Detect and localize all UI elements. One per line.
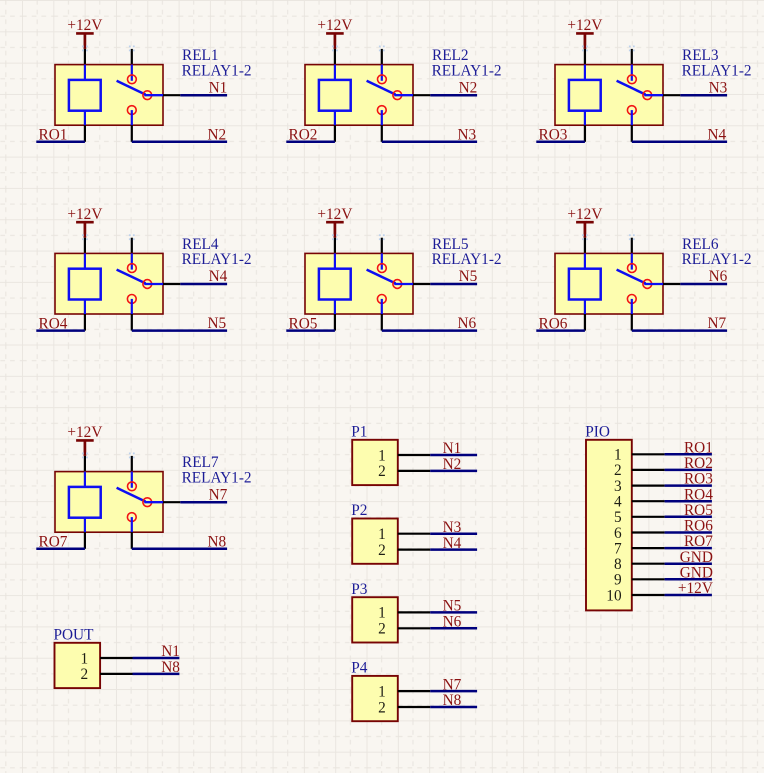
coil of REL4 xyxy=(69,253,101,314)
pin 6 of PIO xyxy=(632,531,665,533)
pole stub to box edge xyxy=(144,283,163,285)
wire net RO1 xyxy=(36,141,85,144)
svg-text:N2: N2 xyxy=(459,79,478,96)
pin (pole) xyxy=(663,283,680,285)
svg-text:2: 2 xyxy=(378,699,386,716)
switch pole circle xyxy=(143,498,152,507)
svg-text:RELAY1-2: RELAY1-2 xyxy=(182,62,252,79)
svg-text:N5: N5 xyxy=(207,315,226,332)
pin 1 of POUT xyxy=(100,657,132,659)
svg-text:1: 1 xyxy=(378,683,386,700)
pin 3 (switch common, free end) xyxy=(131,238,133,254)
svg-text:RELAY1-2: RELAY1-2 xyxy=(432,62,502,79)
wire net GND xyxy=(665,562,712,565)
hotspot marker at coil pin end xyxy=(332,234,338,240)
svg-text:3: 3 xyxy=(614,478,622,495)
pin 3 (switch common, free end) xyxy=(381,238,383,254)
wire net RO1 xyxy=(665,453,712,456)
svg-text:2: 2 xyxy=(378,542,386,559)
pin 2 of PIO xyxy=(632,469,665,471)
wire net N7 xyxy=(430,690,477,693)
pin 3 (switch common, free end) xyxy=(381,49,383,65)
switch pole circle xyxy=(643,280,652,289)
svg-text:+12V: +12V xyxy=(67,424,102,441)
wire net RO2 xyxy=(665,469,712,472)
bottom contact stub xyxy=(131,110,133,125)
svg-text:6: 6 xyxy=(614,525,622,542)
power port +12V (REL5) xyxy=(317,206,352,238)
switch top contact circle xyxy=(127,75,136,84)
svg-text:N4: N4 xyxy=(707,126,726,143)
svg-text:7: 7 xyxy=(614,540,622,557)
switch bottom contact circle xyxy=(127,295,136,304)
switch pole circle xyxy=(393,280,402,289)
svg-text:P4: P4 xyxy=(351,660,368,677)
pin (pole) xyxy=(163,94,180,96)
switch bottom contact circle xyxy=(627,106,636,115)
connector body P1 xyxy=(352,440,398,485)
power port +12V (REL4) xyxy=(67,206,102,238)
wire net N4 xyxy=(180,283,227,286)
switch top contact circle xyxy=(127,482,136,491)
switch bottom contact circle xyxy=(377,106,386,115)
svg-text:N3: N3 xyxy=(443,519,462,536)
wire from +12V to coil pin xyxy=(334,49,336,65)
pin 1 of PIO xyxy=(632,453,665,455)
relay body REL1 xyxy=(55,65,163,126)
wire net N2 xyxy=(430,470,477,473)
relay REL6 xyxy=(536,206,751,333)
svg-text:N1: N1 xyxy=(443,440,462,457)
bottom contact stub xyxy=(381,110,383,125)
relay body REL3 xyxy=(555,65,663,126)
wire net N6 xyxy=(382,329,477,332)
svg-text:RO4: RO4 xyxy=(39,316,68,333)
pin 2 of P3 xyxy=(398,627,430,629)
svg-text:4: 4 xyxy=(614,494,622,511)
pin 10 of PIO xyxy=(632,594,665,596)
switch top contact circle xyxy=(628,264,637,273)
pin (coil bottom) xyxy=(584,125,586,142)
bottom contact stub xyxy=(131,299,133,314)
wire net N3 xyxy=(680,94,727,97)
power port +12V (REL6) xyxy=(567,206,602,238)
relay REL4 xyxy=(36,206,251,333)
svg-text:N2: N2 xyxy=(207,126,226,143)
svg-text:RO5: RO5 xyxy=(289,316,318,333)
svg-text:+12V: +12V xyxy=(67,17,102,34)
power port +12V (REL7) xyxy=(67,424,102,456)
svg-text:RELAY1-2: RELAY1-2 xyxy=(682,62,752,79)
switch contact stub xyxy=(131,253,133,269)
connector P1 xyxy=(351,424,477,486)
pin 3 (switch common, free end) xyxy=(631,49,633,65)
connector body POUT xyxy=(55,643,101,688)
hotspot marker at coil pin end xyxy=(82,453,88,459)
connector PIO xyxy=(585,423,713,610)
wire net RO6 xyxy=(536,329,585,332)
svg-text:RO6: RO6 xyxy=(539,316,568,333)
switch top contact circle xyxy=(127,264,136,273)
connector body P3 xyxy=(352,597,398,642)
switch contact stub xyxy=(381,65,383,81)
svg-text:8: 8 xyxy=(614,556,622,573)
pole stub to box edge xyxy=(644,283,663,285)
pin (coil bottom) xyxy=(334,125,336,142)
pin 1 of P2 xyxy=(398,533,430,535)
wire net RO4 xyxy=(36,329,85,332)
bottom contact stub xyxy=(131,517,133,532)
wire net N1 xyxy=(133,657,180,660)
pin 2 of P2 xyxy=(398,548,430,550)
switch bottom contact circle xyxy=(127,513,136,522)
wire net N5 xyxy=(430,283,477,286)
switch pole circle xyxy=(643,91,652,100)
hotspot marker at switch pin end xyxy=(129,234,135,240)
switch pole circle xyxy=(143,91,152,100)
pin (bottom contact) xyxy=(131,532,133,549)
pin 9 of PIO xyxy=(632,578,665,580)
hotspot marker at switch pin end xyxy=(629,234,635,240)
wire net N6 xyxy=(680,283,727,286)
switch top contact circle xyxy=(378,75,387,84)
hotspot marker at coil pin end xyxy=(332,46,338,52)
svg-text:P2: P2 xyxy=(351,502,367,519)
wire net RO6 xyxy=(665,531,712,534)
pin 5 of PIO xyxy=(632,516,665,518)
pin (bottom contact) xyxy=(631,125,633,142)
wire net N2 xyxy=(430,94,477,97)
wire net N7 xyxy=(632,329,727,332)
pin (coil bottom) xyxy=(84,314,86,331)
pin 2 of P1 xyxy=(398,470,430,472)
wire from +12V to coil pin xyxy=(334,238,336,254)
wire net RO5 xyxy=(286,329,335,332)
pin 2 of POUT xyxy=(100,673,132,675)
coil of REL6 xyxy=(569,253,601,314)
svg-text:N3: N3 xyxy=(709,79,728,96)
pin 1 of P4 xyxy=(398,690,430,692)
pin 1 of P1 xyxy=(398,454,430,456)
coil of REL2 xyxy=(319,65,351,126)
pin (coil bottom) xyxy=(334,314,336,331)
switch bottom contact circle xyxy=(627,295,636,304)
coil of REL7 xyxy=(69,472,101,533)
switch contact stub xyxy=(131,65,133,81)
wire net N5 xyxy=(132,329,227,332)
coil of REL1 xyxy=(69,65,101,126)
pin (bottom contact) xyxy=(131,125,133,142)
switch bottom contact circle xyxy=(377,295,386,304)
svg-text:N4: N4 xyxy=(443,535,462,552)
relay body REL5 xyxy=(305,253,413,314)
svg-text:N2: N2 xyxy=(443,456,462,473)
svg-text:RO7: RO7 xyxy=(39,534,68,551)
switch contact stub xyxy=(381,253,383,269)
switch contact stub xyxy=(131,472,133,488)
wire net N1 xyxy=(430,454,477,457)
relay REL1 xyxy=(36,17,251,144)
svg-text:PIO: PIO xyxy=(585,423,610,440)
pin 3 (switch common, free end) xyxy=(631,238,633,254)
svg-text:1: 1 xyxy=(378,526,386,543)
pole stub to box edge xyxy=(394,283,413,285)
wire net RO5 xyxy=(665,516,712,519)
pin 4 of PIO xyxy=(632,500,665,502)
pin (coil bottom) xyxy=(584,314,586,331)
svg-text:N8: N8 xyxy=(161,659,180,676)
svg-text:N5: N5 xyxy=(443,598,462,615)
svg-text:N7: N7 xyxy=(209,486,228,503)
svg-text:N1: N1 xyxy=(209,79,228,96)
svg-text:N5: N5 xyxy=(459,268,478,285)
switch lever xyxy=(367,270,396,284)
hotspot marker at coil pin end xyxy=(582,234,588,240)
svg-text:P3: P3 xyxy=(351,581,368,598)
pole stub to box edge xyxy=(144,501,163,503)
svg-text:N4: N4 xyxy=(209,268,228,285)
svg-text:RO5: RO5 xyxy=(684,502,713,519)
wire net +12V xyxy=(665,594,712,597)
connector POUT xyxy=(54,627,181,689)
svg-text:RO1: RO1 xyxy=(684,439,713,456)
wire net N4 xyxy=(430,548,477,551)
svg-text:GND: GND xyxy=(680,564,713,581)
wire net N8 xyxy=(430,706,477,709)
wire net GND xyxy=(665,578,712,581)
svg-text:+12V: +12V xyxy=(317,206,352,223)
connector P3 xyxy=(351,581,477,643)
wire from +12V to coil pin xyxy=(84,49,86,65)
wire net RO3 xyxy=(665,484,712,487)
pin (pole) xyxy=(663,94,680,96)
svg-text:N7: N7 xyxy=(707,315,726,332)
pin (pole) xyxy=(163,501,180,503)
svg-text:+12V: +12V xyxy=(678,580,713,597)
switch contact stub xyxy=(631,65,633,81)
svg-text:GND: GND xyxy=(680,549,713,566)
pin (pole) xyxy=(163,283,180,285)
hotspot marker at switch pin end xyxy=(379,46,385,52)
pole stub to box edge xyxy=(144,94,163,96)
svg-text:N6: N6 xyxy=(457,315,476,332)
connector P4 xyxy=(351,660,477,722)
pin (pole) xyxy=(413,94,430,96)
svg-text:+12V: +12V xyxy=(317,17,352,34)
coil of REL5 xyxy=(319,253,351,314)
connector body PIO xyxy=(586,440,632,611)
wire net RO3 xyxy=(536,141,585,144)
pin 3 (switch common, free end) xyxy=(131,49,133,65)
pin (bottom contact) xyxy=(131,314,133,331)
switch pole circle xyxy=(143,280,152,289)
connector P2 xyxy=(351,502,477,564)
wire net N3 xyxy=(382,141,477,144)
switch lever xyxy=(367,81,396,95)
wire net RO2 xyxy=(286,141,335,144)
wire net N8 xyxy=(133,673,180,676)
hotspot marker at coil pin end xyxy=(82,234,88,240)
svg-text:RO3: RO3 xyxy=(684,471,713,488)
switch bottom contact circle xyxy=(127,106,136,115)
pin 3 (switch common, free end) xyxy=(131,456,133,472)
svg-text:1: 1 xyxy=(614,447,622,464)
pin 3 of PIO xyxy=(632,485,665,487)
relay REL5 xyxy=(286,206,501,333)
svg-text:2: 2 xyxy=(80,666,88,683)
pin (pole) xyxy=(413,283,430,285)
wire from +12V to coil pin xyxy=(584,49,586,65)
hotspot marker at switch pin end xyxy=(129,453,135,459)
svg-text:+12V: +12V xyxy=(567,206,602,223)
pin 2 of P4 xyxy=(398,706,430,708)
svg-text:POUT: POUT xyxy=(54,627,95,644)
hotspot marker at switch pin end xyxy=(379,234,385,240)
svg-text:RO3: RO3 xyxy=(539,127,568,144)
power port +12V (REL1) xyxy=(67,17,102,49)
svg-text:RO2: RO2 xyxy=(289,127,318,144)
connector body P2 xyxy=(352,519,398,564)
switch lever xyxy=(117,270,146,284)
wire net N8 xyxy=(132,548,227,551)
svg-text:N1: N1 xyxy=(161,643,180,660)
svg-text:RO4: RO4 xyxy=(684,486,713,503)
svg-text:2: 2 xyxy=(378,463,386,480)
svg-text:N6: N6 xyxy=(709,268,728,285)
switch contact stub xyxy=(631,253,633,269)
pin (coil bottom) xyxy=(84,125,86,142)
pin 8 of PIO xyxy=(632,563,665,565)
wire net N5 xyxy=(430,611,477,614)
svg-text:RO2: RO2 xyxy=(684,455,713,472)
svg-text:RELAY1-2: RELAY1-2 xyxy=(182,251,252,268)
relay body REL2 xyxy=(305,65,413,126)
wire net N2 xyxy=(132,141,227,144)
pin (bottom contact) xyxy=(631,314,633,331)
wire net N4 xyxy=(632,141,727,144)
relay REL3 xyxy=(536,17,751,144)
svg-text:1: 1 xyxy=(80,650,88,667)
svg-text:5: 5 xyxy=(614,509,622,526)
svg-text:+12V: +12V xyxy=(67,206,102,223)
pole stub to box edge xyxy=(644,94,663,96)
pin (coil bottom) xyxy=(84,532,86,549)
bottom contact stub xyxy=(381,299,383,314)
svg-text:N6: N6 xyxy=(443,614,462,631)
bottom contact stub xyxy=(631,110,633,125)
svg-text:RELAY1-2: RELAY1-2 xyxy=(432,251,502,268)
wire net RO7 xyxy=(665,547,712,550)
switch top contact circle xyxy=(628,75,637,84)
wire net N6 xyxy=(430,627,477,630)
hotspot marker at coil pin end xyxy=(582,46,588,52)
switch lever xyxy=(117,488,146,502)
power port +12V (REL3) xyxy=(567,17,602,49)
relay body REL4 xyxy=(55,253,163,314)
switch pole circle xyxy=(393,91,402,100)
wire net RO7 xyxy=(36,548,85,551)
switch lever xyxy=(617,270,646,284)
wire net N1 xyxy=(180,94,227,97)
pin 1 of P3 xyxy=(398,611,430,613)
power port +12V (REL2) xyxy=(317,17,352,49)
relay REL7 xyxy=(36,424,251,551)
hotspot marker at switch pin end xyxy=(129,46,135,52)
svg-text:2: 2 xyxy=(614,462,622,479)
svg-text:P1: P1 xyxy=(351,424,367,441)
relay body REL7 xyxy=(55,472,163,533)
pole stub to box edge xyxy=(394,94,413,96)
svg-text:RO1: RO1 xyxy=(39,127,68,144)
svg-text:N7: N7 xyxy=(443,676,462,693)
pin (bottom contact) xyxy=(381,314,383,331)
svg-text:RO6: RO6 xyxy=(684,518,713,535)
svg-text:+12V: +12V xyxy=(567,17,602,34)
svg-text:N3: N3 xyxy=(457,126,476,143)
relay REL2 xyxy=(286,17,501,144)
wire net RO4 xyxy=(665,500,712,503)
wire from +12V to coil pin xyxy=(584,238,586,254)
svg-text:1: 1 xyxy=(378,605,386,622)
svg-text:RO7: RO7 xyxy=(684,533,713,550)
svg-text:N8: N8 xyxy=(207,533,226,550)
svg-text:RELAY1-2: RELAY1-2 xyxy=(682,251,752,268)
switch lever xyxy=(617,81,646,95)
pin (bottom contact) xyxy=(381,125,383,142)
svg-text:N8: N8 xyxy=(443,692,462,709)
connector body P4 xyxy=(352,676,398,721)
wire net N3 xyxy=(430,532,477,535)
hotspot marker at switch pin end xyxy=(629,46,635,52)
svg-text:1: 1 xyxy=(378,447,386,464)
relay body REL6 xyxy=(555,253,663,314)
svg-text:2: 2 xyxy=(378,621,386,638)
switch top contact circle xyxy=(378,264,387,273)
bottom contact stub xyxy=(631,299,633,314)
wire from +12V to coil pin xyxy=(84,238,86,254)
wire net N7 xyxy=(180,501,227,504)
svg-text:9: 9 xyxy=(614,572,622,589)
switch lever xyxy=(117,81,146,95)
pin 7 of PIO xyxy=(632,547,665,549)
hotspot marker at coil pin end xyxy=(82,46,88,52)
wire from +12V to coil pin xyxy=(84,456,86,472)
svg-text:10: 10 xyxy=(606,587,622,604)
svg-text:RELAY1-2: RELAY1-2 xyxy=(182,469,252,486)
coil of REL3 xyxy=(569,65,601,126)
